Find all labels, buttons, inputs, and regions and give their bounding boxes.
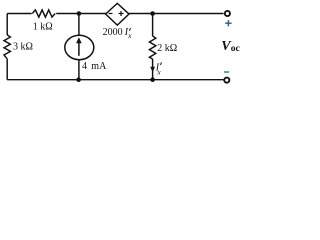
- label I'x: [155, 62, 162, 76]
- svg-text:1 kΩ: 1 kΩ: [33, 22, 53, 33]
- wire 2k branch upper: [152, 14, 154, 37]
- minus sign inside diamond: [109, 13, 113, 15]
- wire current source branch lower: [78, 60, 80, 80]
- dependent voltage source 2000Ix (diamond): [106, 3, 129, 25]
- label 4 mA: [82, 61, 107, 72]
- resistor 2 kΩ: [149, 36, 155, 59]
- minus terminal sign: [224, 71, 229, 73]
- svg-text:x: x: [156, 68, 161, 77]
- junction node dot (top, current source tap): [77, 11, 82, 16]
- plus terminal sign: [225, 20, 231, 26]
- label 2 kΩ: [157, 43, 177, 54]
- label 1 kΩ: [33, 22, 53, 33]
- svg-text:2 kΩ: 2 kΩ: [157, 43, 177, 54]
- wire left vertical top: [6, 14, 8, 36]
- svg-text:oc: oc: [231, 44, 240, 54]
- wire bottom segment: [7, 79, 223, 81]
- wire top middle segment: [56, 13, 106, 15]
- svg-text:2000: 2000: [103, 27, 123, 38]
- junction node dot (bottom, current source): [76, 77, 81, 82]
- resistor 1 kΩ: [32, 10, 55, 17]
- svg-text:mA: mA: [91, 61, 107, 72]
- wire left vertical bottom: [6, 59, 8, 80]
- terminal bottom (open circle): [224, 78, 229, 83]
- label 3 kΩ: [13, 41, 33, 52]
- wire 2k branch lower: [152, 59, 154, 80]
- wire top right segment: [129, 13, 224, 15]
- label 2000 I'x: [103, 27, 133, 40]
- svg-text:4: 4: [82, 61, 87, 72]
- terminal top (open circle): [225, 11, 230, 16]
- svg-text:x: x: [127, 31, 132, 40]
- plus sign inside diamond: [119, 11, 124, 16]
- current source 4 mA (circle): [65, 35, 94, 59]
- junction node dot (bottom, 2k): [150, 77, 155, 82]
- current arrow I'x on 2k branch: [150, 67, 155, 72]
- label Voc: [221, 39, 239, 54]
- junction node dot (top, 2k tap): [150, 11, 155, 16]
- svg-text:3 kΩ: 3 kΩ: [13, 41, 33, 52]
- arrow inside current source: [76, 37, 82, 56]
- wire top-left segment: [7, 13, 32, 15]
- wire current source branch upper: [78, 14, 80, 36]
- resistor 3 kΩ: [4, 35, 10, 59]
